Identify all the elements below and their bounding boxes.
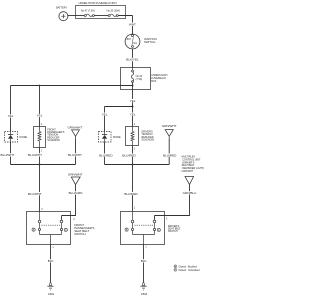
wire upper arrow to bus (75, 138, 77, 164)
wire label YEL main (130, 99, 136, 103)
wire passenger switch to ground (50, 245, 52, 282)
wire upper right arrow to bus (168, 138, 170, 164)
ground G502 (140, 281, 146, 290)
svg-text:No.47 (7.5A): No.47 (7.5A) (81, 10, 95, 13)
svg-text:2: 2 (166, 219, 168, 221)
wire driver switch to ground (143, 245, 145, 282)
diode D1 box (5, 132, 18, 143)
connector arrow lower right (185, 177, 194, 185)
svg-text:GRN/BLU: GRN/BLU (183, 191, 197, 195)
wire label BLU/GRN (69, 191, 83, 195)
diode D2 box (99, 132, 112, 143)
junction node A (132, 85, 134, 87)
svg-text:2: 2 (41, 124, 43, 126)
svg-text:No.20 (30A): No.20 (30A) (107, 10, 120, 13)
switch SW3 internals (131, 212, 156, 245)
svg-text:1: 1 (134, 124, 136, 126)
svg-text:3: 3 (41, 209, 43, 211)
svg-text:(7.5A): (7.5A) (136, 78, 143, 81)
branch wire to right diode (105, 106, 133, 108)
junction node D (132, 164, 134, 166)
ignition switch SW1 (125, 34, 140, 49)
fuse No.47 (7.5A) (84, 14, 94, 16)
driver seat belt switch SW3 box (121, 212, 165, 245)
svg-text:DIODE: DIODE (19, 136, 27, 139)
wire bus to passenger switch (39, 165, 41, 212)
wire label BLU/WHT arrow (68, 153, 82, 157)
contact label A passenger (64, 228, 67, 232)
wire battery to under-hood box (68, 15, 76, 17)
wire label BLU/RED solenoid (122, 153, 136, 157)
junction node E (39, 85, 41, 87)
driver tension reducer solenoid L2 box (126, 127, 139, 146)
svg-text:SWITCH: SWITCH (168, 230, 178, 233)
wire lower arrow to passenger switch (62, 185, 76, 220)
wire bus to driver switch (132, 165, 134, 212)
wire label BLU/WHT solenoid (28, 153, 42, 157)
svg-text:2: 2 (73, 219, 75, 221)
svg-text:SWITCH: SWITCH (74, 232, 85, 236)
wire label BLU/WHT to switch (28, 192, 42, 196)
wire solenoid L1 to bus (39, 148, 41, 165)
front passenger seat belt switch SW2 box (27, 212, 71, 245)
contact label A driver (157, 228, 160, 232)
svg-text:BLU/WHT: BLU/WHT (28, 153, 42, 157)
right bus wire (105, 164, 170, 166)
svg-text:BATTERY: BATTERY (56, 6, 67, 9)
connector arrow upper right (165, 130, 173, 139)
battery B1 (59, 12, 68, 21)
legend contact B closed unbuckled (174, 268, 200, 271)
wire solenoid L2 to bus (132, 146, 134, 165)
svg-text:BLK: BLK (48, 259, 55, 263)
connector arrow lower left (71, 177, 80, 185)
wire label BLK right (141, 259, 148, 263)
fuse No.10 (7.5A) (131, 68, 133, 83)
ground G501 (47, 281, 53, 290)
wire label YEL left solenoid (37, 114, 43, 118)
svg-text:WHT: WHT (129, 23, 136, 27)
svg-text:BOX: BOX (151, 80, 157, 83)
wire label YEL right solenoid (130, 112, 136, 116)
contact label B passenger (32, 228, 35, 232)
wire diode D2 to bus (104, 142, 106, 165)
wire ignition to under-dash box (132, 49, 134, 68)
under-hood fuse/relay box (76, 6, 126, 19)
svg-text:BLU/RED: BLU/RED (124, 192, 138, 196)
diode D1 (8, 132, 13, 143)
switch SW2 internals (38, 212, 63, 245)
svg-text:BLU/RED: BLU/RED (163, 153, 177, 157)
svg-text:BLU/RED: BLU/RED (122, 153, 136, 157)
wire label GRN/BLU (183, 191, 197, 195)
svg-text:1: 1 (134, 208, 136, 210)
svg-text:YEL: YEL (102, 112, 108, 116)
branch wire to left circuit (11, 85, 133, 87)
wire between fuses (94, 15, 108, 17)
svg-text:Closed : Unbuckled: Closed : Unbuckled (178, 269, 200, 272)
svg-text:BAT: BAT (127, 38, 132, 41)
svg-text:2: 2 (134, 149, 136, 151)
left bus wire (11, 164, 76, 166)
left diode feed wire (10, 86, 12, 132)
solenoid L2 coil (131, 127, 134, 146)
svg-text:YEL: YEL (130, 112, 136, 116)
wire label BLU/RED diode (99, 153, 113, 157)
svg-text:G502: G502 (141, 292, 148, 296)
svg-text:GRN/WHT: GRN/WHT (68, 125, 83, 129)
wire label YEL left diode (8, 114, 14, 118)
junction node B (132, 106, 134, 108)
svg-text:SOLENOID: SOLENOID (142, 138, 155, 141)
svg-text:DIODE: DIODE (113, 136, 121, 139)
svg-text:BLK: BLK (141, 259, 148, 263)
fuse No.20 (30A) (108, 14, 118, 16)
svg-text:1: 1 (145, 247, 147, 249)
svg-text:GRN/WHT: GRN/WHT (162, 124, 177, 128)
svg-text:BLU/RED: BLU/RED (99, 153, 113, 157)
wire label BLU/RED to switch (124, 192, 138, 196)
svg-text:YEL: YEL (37, 114, 43, 118)
svg-text:BLU/WHT: BLU/WHT (28, 192, 42, 196)
svg-text:BLU/GRN: BLU/GRN (69, 191, 83, 195)
wire fuse box to ignition switch (118, 16, 132, 35)
wire label BLU/RED arrow (163, 153, 177, 157)
svg-text:YEL: YEL (130, 99, 136, 103)
wire into fuse No.47 (76, 15, 85, 17)
wire label WHT (129, 23, 136, 27)
svg-text:1: 1 (41, 150, 43, 152)
wire fuse to node B (132, 82, 134, 106)
wire label BLU/WHT diode (1, 153, 15, 157)
svg-text:IG1: IG1 (133, 43, 137, 45)
svg-text:BLU/WHT: BLU/WHT (1, 153, 15, 157)
legend contact A closed buckled (174, 265, 197, 268)
wire lower right arrow to driver switch (155, 185, 190, 220)
svg-text:G501: G501 (48, 292, 55, 296)
wire label BLK/YEL (126, 58, 139, 62)
left solenoid feed wire (39, 86, 41, 127)
svg-text:· GRN/WHT: · GRN/WHT (180, 170, 194, 173)
svg-text:BLU/WHT: BLU/WHT (68, 153, 82, 157)
svg-text:BLK/YEL: BLK/YEL (126, 58, 139, 62)
svg-text:YEL: YEL (8, 114, 14, 118)
right solenoid feed wire (132, 107, 134, 127)
svg-text:SOLENOID: SOLENOID (47, 139, 60, 142)
svg-text:1: 1 (52, 247, 54, 249)
svg-text:SWITCH: SWITCH (144, 40, 155, 44)
multiplex control unit destination note (180, 156, 204, 174)
connector arrow upper left (72, 130, 80, 139)
wire label BLK left (48, 259, 55, 263)
front passenger tension reducer solenoid L1 box (34, 127, 46, 148)
wire diode D1 to bus (10, 142, 12, 165)
junction node C (39, 164, 41, 166)
contact label B driver (125, 228, 128, 232)
svg-text:GRN/WHT: GRN/WHT (68, 172, 83, 176)
diode D2 (102, 132, 107, 143)
svg-text:UNDER-HOOD FUSE/RELAY BOX: UNDER-HOOD FUSE/RELAY BOX (79, 2, 118, 5)
right diode feed wire (104, 107, 106, 132)
wire label YEL right diode (102, 112, 108, 116)
under-dash fuse/relay box (121, 68, 151, 90)
solenoid L1 coil (38, 127, 41, 148)
